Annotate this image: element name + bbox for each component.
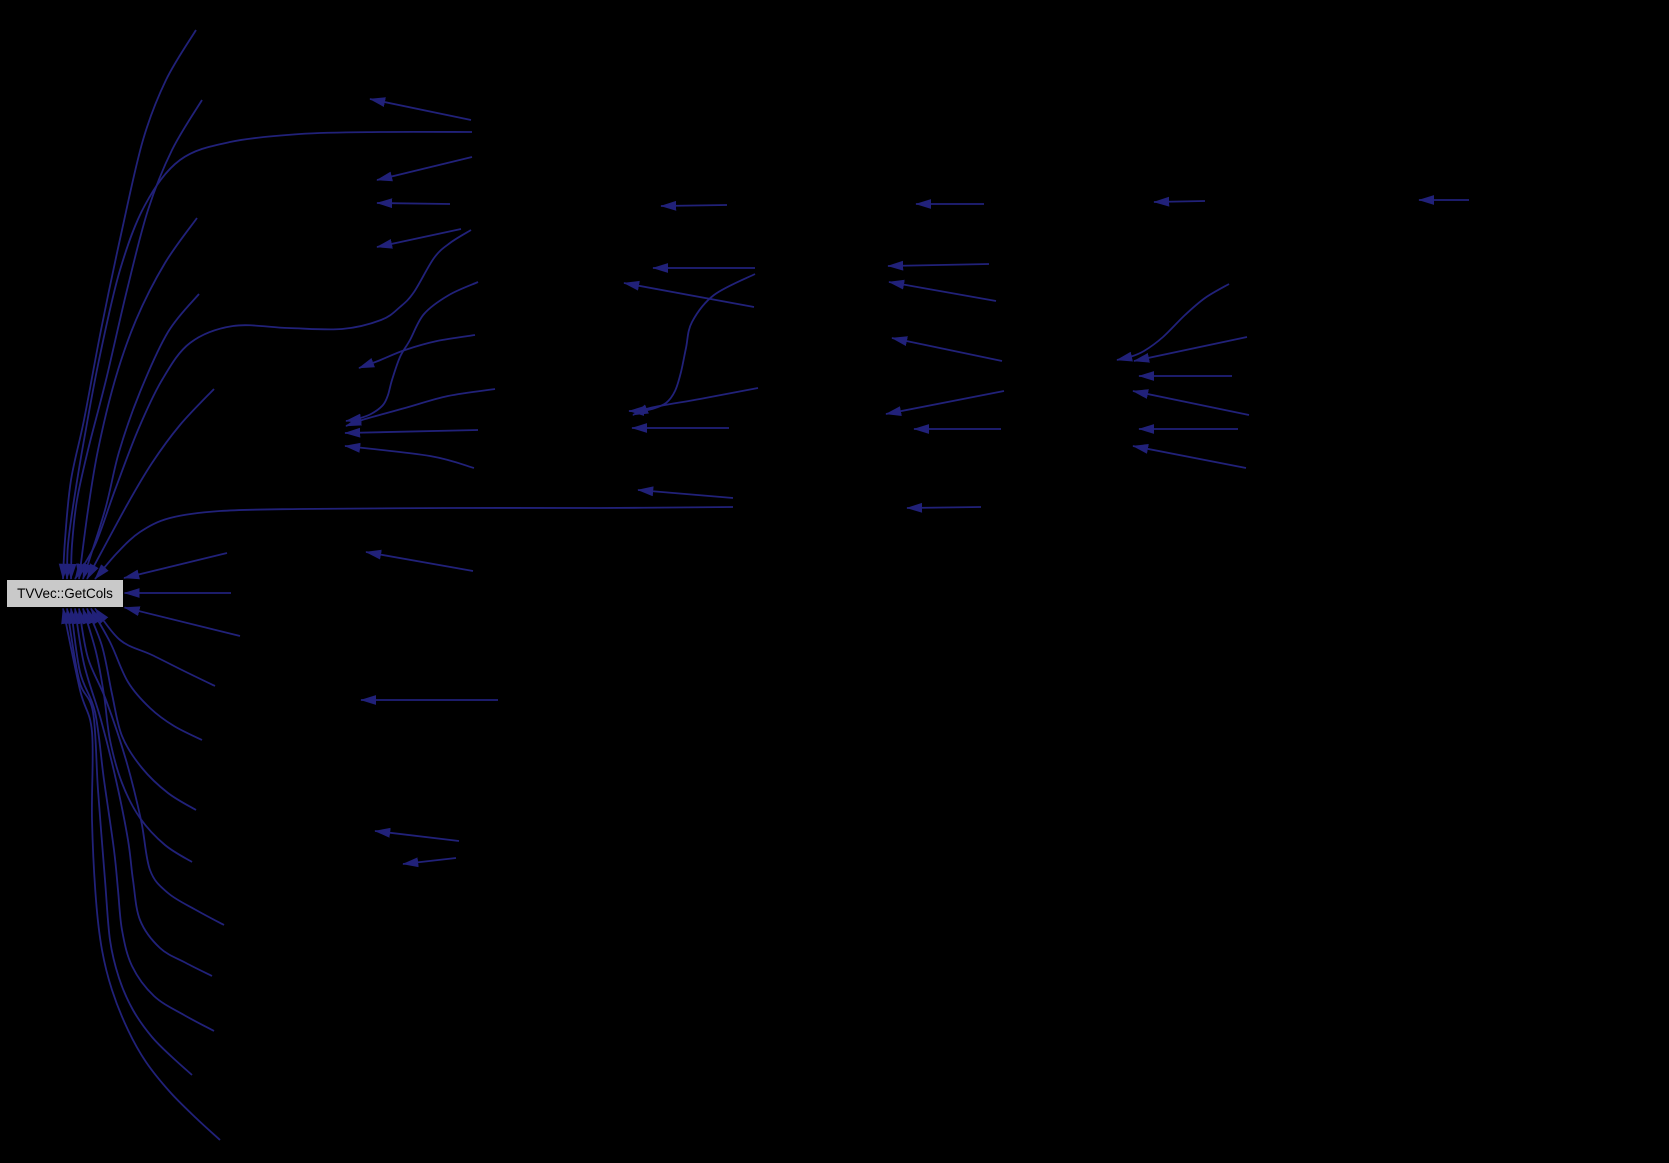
node TVVec::GetCols (root): box	[7, 580, 123, 607]
fan Flong	[95, 507, 733, 579]
fan F6	[87, 389, 214, 579]
edge N3->N2e	[359, 335, 475, 368]
edge N5->N4a	[916, 203, 984, 205]
edge N3->C2L l1	[346, 389, 495, 426]
edge N3->N2f	[366, 552, 473, 571]
edge N6->C5L d	[1133, 391, 1249, 415]
fan G2	[91, 609, 202, 741]
edge N3->C2L l4	[345, 446, 474, 468]
edge N4->N3c	[624, 283, 754, 307]
fan F5	[83, 294, 199, 579]
edge N3->N2c	[377, 203, 450, 204]
edge N5->N4d	[892, 338, 1002, 361]
fan G8	[67, 609, 192, 1076]
edge N5->N4g	[907, 507, 981, 508]
edge N4->N3d	[638, 490, 733, 498]
edge N4->C3L e	[633, 388, 758, 415]
edge N3->N2d	[377, 229, 461, 247]
edge N3->N2b	[377, 157, 472, 180]
edge N6->C5L b	[1134, 337, 1247, 361]
edge N5->N4c	[889, 282, 996, 301]
edge N5->N4f	[914, 428, 1001, 430]
fan G1	[95, 609, 215, 687]
edge N6->N5a	[1154, 201, 1205, 202]
edge N3->N2i	[403, 858, 456, 864]
edge N3->N2h	[375, 831, 459, 841]
edge N3->N2a	[370, 99, 471, 120]
fan FW	[75, 230, 471, 579]
edge caller->root r1	[124, 553, 227, 578]
edge caller->root r3	[125, 608, 241, 637]
edge N4->N3b	[653, 267, 755, 269]
fan G6	[75, 609, 212, 977]
edge N4->C3L h	[632, 427, 729, 429]
node TVVec::GetCols (root): label	[17, 586, 113, 601]
edge N4->N3a	[661, 205, 727, 206]
edge N6->C5L f	[1133, 446, 1246, 468]
fan G9	[63, 609, 220, 1141]
svg-text:TVVec::GetCols: TVVec::GetCols	[17, 586, 113, 601]
fan G4	[83, 609, 192, 863]
edge N5->N4b	[888, 264, 989, 266]
edge N4->C3L s	[629, 274, 755, 411]
edge N7->N6a	[1419, 199, 1469, 201]
fan F2	[71, 100, 202, 579]
edge N6->C5L e	[1139, 428, 1238, 430]
fan F1	[63, 30, 196, 579]
edge N3->C2L l2	[345, 430, 478, 433]
edge caller->root r2	[125, 592, 232, 594]
fan F4	[79, 218, 197, 579]
fan G5	[79, 609, 224, 926]
fan G3	[87, 609, 196, 811]
edge N6->C5L s	[1117, 284, 1229, 360]
fan F3	[67, 132, 472, 579]
fan G7	[71, 609, 214, 1032]
edge N6->C5L c	[1139, 375, 1232, 377]
edge N3->N2g	[361, 699, 498, 701]
edge N5->N4e	[886, 391, 1004, 414]
edge N3->C2L q	[346, 282, 478, 421]
